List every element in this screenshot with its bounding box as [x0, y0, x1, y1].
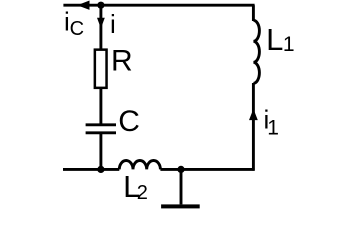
node junction top (iC/i split) — [97, 2, 104, 9]
svg-text:2: 2 — [137, 182, 148, 204]
svg-text:L: L — [266, 22, 283, 57]
svg-text:R: R — [111, 44, 133, 77]
wire capacitor to bottom node — [99, 134, 102, 170]
ground stem — [180, 169, 183, 204]
svg-text:1: 1 — [267, 117, 279, 140]
capacitor C bottom plate — [86, 131, 116, 134]
node junction bottom left — [97, 166, 104, 173]
node junction ground — [177, 166, 184, 173]
wire top horizontal — [63, 4, 254, 7]
arrow i (current arrow pointing down) — [97, 18, 105, 29]
svg-text:1: 1 — [283, 33, 295, 56]
svg-text:C: C — [118, 105, 140, 138]
wire L2 to ground node — [160, 168, 254, 171]
capacitor C top plate — [86, 123, 116, 126]
inductor L2 — [119, 161, 160, 170]
wire right vertical top — [252, 5, 255, 21]
wire resistor to capacitor — [99, 88, 102, 124]
wire right vertical bottom — [252, 83, 255, 171]
inductor L1 — [253, 20, 259, 83]
wire junction to resistor — [99, 5, 102, 50]
svg-text:i: i — [110, 9, 116, 39]
ground bar — [161, 204, 200, 208]
resistor R — [95, 50, 107, 88]
svg-text:C: C — [70, 18, 84, 40]
wire bottom left horizontal — [63, 168, 119, 171]
arrow i1 (current arrow pointing up) — [249, 109, 258, 120]
arrow iC (current arrow pointing left on top wire) — [77, 1, 89, 10]
